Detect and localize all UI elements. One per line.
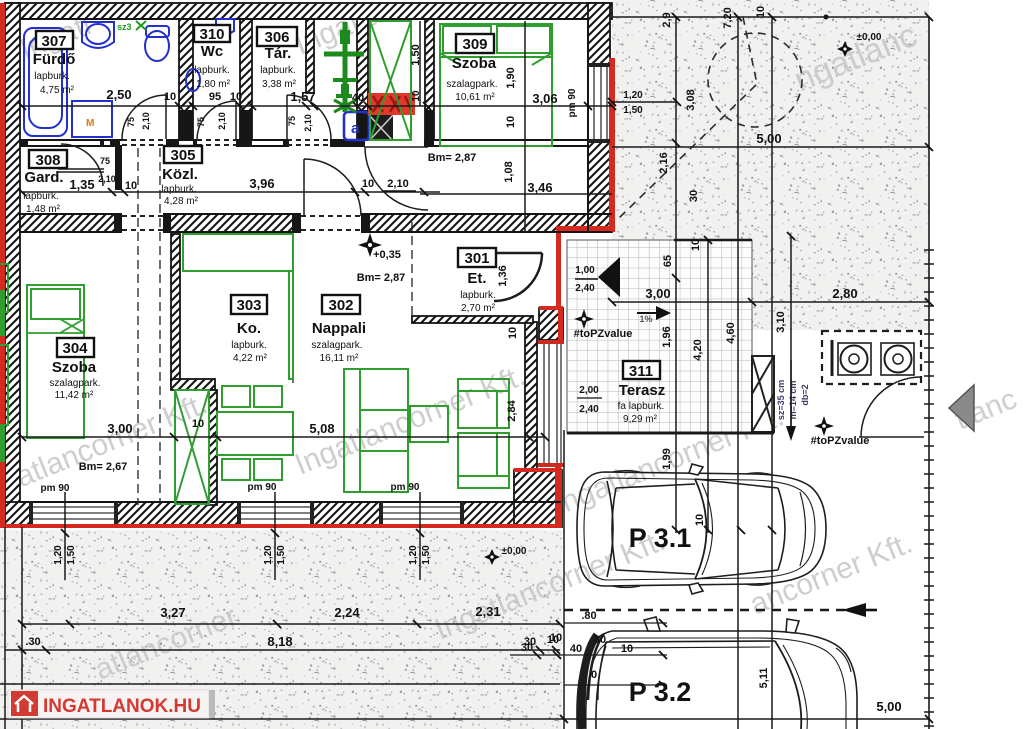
corridor bottom wall — [20, 214, 612, 232]
svg-text:30: 30 — [688, 190, 700, 202]
svg-text:Közl.: Közl. — [162, 166, 198, 183]
tar door — [287, 95, 331, 139]
svg-text:2,50: 2,50 — [106, 87, 131, 102]
svg-text:3,00: 3,00 — [107, 421, 132, 436]
svg-text:lapburk.: lapburk. — [34, 71, 70, 82]
left wheel dark — [582, 635, 598, 729]
dark lower parts of top interior walls — [179, 110, 193, 140]
entrance arrow — [575, 257, 620, 297]
svg-text:Nappali: Nappali — [312, 320, 366, 337]
svg-text:szalagpark.: szalagpark. — [446, 79, 497, 90]
svg-text:sz=35 cm: sz=35 cm — [776, 380, 786, 420]
kitchen counter — [183, 234, 293, 271]
svg-text:10: 10 — [694, 514, 706, 526]
bathtub — [24, 28, 67, 136]
red path near stairs — [556, 226, 612, 231]
small wall below kitchen — [171, 379, 215, 390]
front wheel bump — [836, 648, 851, 672]
door corridor to nappali — [304, 159, 361, 216]
K3 red box — [368, 93, 415, 115]
gray direction triangle right — [949, 385, 974, 431]
svg-text:sz3: sz3 — [117, 22, 132, 32]
svg-text:305: 305 — [170, 147, 195, 164]
bottom wall window 1 — [32, 503, 115, 524]
shaft box — [539, 308, 563, 340]
svg-text:10: 10 — [192, 418, 204, 430]
svg-text:3,06: 3,06 — [532, 91, 557, 106]
green window X — [370, 21, 411, 140]
armchair 1 — [458, 379, 509, 428]
armchair 2 — [458, 433, 509, 488]
room 308 — [23, 150, 67, 215]
solid black wall chunks along bathroom wall — [20, 110, 434, 232]
svg-text:1,50: 1,50 — [276, 545, 287, 565]
roof — [612, 484, 695, 574]
svg-text:1,96: 1,96 — [661, 326, 673, 347]
ground stipple bottom strip — [0, 530, 562, 729]
svg-text:10: 10 — [690, 239, 702, 251]
logo — [8, 690, 215, 718]
coffee table — [410, 406, 448, 442]
wc toilet — [186, 69, 200, 91]
svg-text:10: 10 — [621, 643, 633, 655]
bottom wall window 3 — [382, 503, 462, 524]
svg-text:4,60: 4,60 — [725, 322, 737, 343]
svg-text:1,99: 1,99 — [661, 448, 673, 469]
svg-text:2,84: 2,84 — [506, 399, 518, 421]
red accents — [0, 3, 615, 528]
svg-text:75: 75 — [287, 116, 297, 126]
svg-text:310: 310 — [199, 26, 224, 43]
right wall window — [589, 67, 609, 139]
washing machine — [72, 101, 112, 137]
svg-text:3,96: 3,96 — [249, 176, 274, 191]
svg-text:Szoba: Szoba — [452, 55, 497, 72]
svg-text:1,50: 1,50 — [410, 44, 422, 65]
svg-text:Bm= 2,87: Bm= 2,87 — [428, 152, 477, 164]
svg-text:1,20: 1,20 — [623, 90, 643, 101]
svg-text:10,61 m²: 10,61 m² — [455, 92, 495, 103]
room 306 — [257, 27, 297, 90]
top wall — [5, 3, 612, 19]
svg-text:2,24: 2,24 — [334, 605, 360, 620]
jambs at gard door — [100, 140, 104, 146]
svg-text:P 3.1: P 3.1 — [629, 523, 692, 553]
kitchen left wall — [171, 234, 180, 384]
svg-text:309: 309 — [462, 36, 487, 53]
svg-text:±0,00: ±0,00 — [857, 32, 882, 43]
svg-text:16,11 m²: 16,11 m² — [320, 353, 359, 364]
svg-text:pm 90: pm 90 — [248, 482, 277, 493]
svg-text:75: 75 — [126, 117, 136, 127]
svg-text:1,50: 1,50 — [421, 545, 432, 565]
svg-text:2,16: 2,16 — [658, 152, 670, 173]
svg-text:1,20: 1,20 — [263, 545, 274, 565]
svg-text:2,10: 2,10 — [98, 174, 116, 184]
svg-text:10: 10 — [230, 91, 242, 103]
wall between Furdo and Wc — [179, 19, 193, 140]
mirrors — [689, 464, 703, 594]
left wall — [5, 3, 20, 527]
svg-text:1,50: 1,50 — [66, 545, 77, 565]
bed 304 — [27, 285, 84, 438]
gard right jamb wall — [115, 145, 122, 190]
down arrow stairs — [786, 426, 796, 441]
stairs texts — [776, 380, 810, 420]
dark shaft box — [369, 115, 393, 141]
svg-text:10: 10 — [125, 180, 137, 192]
plusminus top right — [837, 32, 882, 57]
svg-text:304: 304 — [62, 340, 88, 357]
svg-text:2,9: 2,9 — [661, 12, 673, 27]
room 310 — [194, 25, 231, 90]
sink — [82, 22, 114, 48]
svg-text:1,90: 1,90 — [505, 67, 517, 88]
plant symbol — [343, 22, 348, 112]
svg-text:4,22 m²: 4,22 m² — [233, 353, 268, 364]
a pillars — [695, 479, 778, 579]
svg-text:3,46: 3,46 — [527, 180, 552, 195]
room 304 — [49, 338, 100, 401]
terrace stairs right — [752, 356, 774, 432]
wall between window zone and room 309 — [425, 19, 434, 140]
svg-text:2,40: 2,40 — [575, 283, 595, 294]
svg-text:2,10: 2,10 — [387, 178, 408, 190]
svg-text:40: 40 — [352, 92, 364, 104]
door corridor to 309 hall — [365, 147, 428, 210]
svg-text:9,29 m²: 9,29 m² — [623, 414, 658, 425]
svg-text:7,20: 7,20 — [722, 7, 734, 28]
svg-text:301: 301 — [464, 250, 489, 267]
bottom wall window 2 — [240, 503, 312, 524]
svg-text:pm 90: pm 90 — [391, 482, 420, 493]
svg-text:Szoba: Szoba — [52, 359, 97, 376]
svg-text:lapburk.: lapburk. — [161, 184, 197, 195]
svg-text:±0,00: ±0,00 — [502, 546, 527, 557]
car P3.1 — [577, 464, 826, 594]
svg-text:75: 75 — [100, 156, 110, 166]
wc door — [197, 101, 236, 140]
svg-text:1,50: 1,50 — [623, 105, 643, 116]
wc sink — [216, 19, 234, 34]
rear — [596, 642, 606, 729]
svg-text:3,27: 3,27 — [160, 605, 185, 620]
room 302 — [311, 295, 366, 364]
svg-text:10: 10 — [362, 178, 374, 190]
svg-text:10: 10 — [507, 327, 519, 339]
svg-text:INGATLANOK.HU: INGATLANOK.HU — [43, 696, 201, 717]
dashed door openings in corridor wall — [122, 140, 697, 240]
svg-text:2,10: 2,10 — [141, 112, 151, 130]
room 305 — [161, 146, 202, 207]
red bottom edge — [0, 524, 562, 528]
room 307 — [33, 31, 76, 96]
nappali right wall — [525, 322, 537, 502]
svg-text:1,80 m²: 1,80 m² — [196, 79, 231, 90]
et bottom wall strip — [412, 316, 533, 323]
svg-text:fa lapburk.: fa lapburk. — [618, 401, 665, 412]
gard door — [61, 144, 103, 186]
svg-text:8,18: 8,18 — [267, 634, 292, 649]
rotated dimension texts — [53, 6, 787, 689]
furdo door — [122, 95, 166, 139]
windshield — [775, 641, 801, 729]
svg-text:30: 30 — [594, 634, 606, 646]
wall left of green window — [357, 19, 368, 140]
svg-text:M: M — [86, 118, 94, 129]
plusminus bottom — [484, 546, 527, 565]
svg-text:Wc: Wc — [201, 43, 224, 60]
svg-text:2,10: 2,10 — [303, 114, 313, 132]
1% slope arrow — [637, 306, 671, 324]
bottom wall — [5, 502, 561, 527]
svg-text:1%: 1% — [639, 314, 652, 324]
svg-text:Tár.: Tár. — [265, 45, 292, 62]
svg-text:2,80: 2,80 — [832, 286, 857, 301]
svg-text:lapburk.: lapburk. — [231, 340, 267, 351]
svg-text:m=14 cm: m=14 cm — [788, 381, 798, 420]
a badge — [344, 112, 369, 140]
svg-text:lapburk.: lapburk. — [194, 65, 230, 76]
right wall — [588, 3, 610, 232]
bed 309 — [440, 24, 552, 146]
green neighbor marks on left edge — [0, 290, 5, 336]
red borders sw corner block — [514, 468, 562, 472]
room 311 — [618, 361, 666, 425]
svg-text:75: 75 — [196, 117, 206, 127]
ground stipple top-right — [612, 0, 929, 330]
car P3.2 — [577, 617, 857, 729]
red left edge — [0, 3, 5, 527]
et door — [494, 253, 542, 301]
svg-text:4,75 m²: 4,75 m² — [40, 85, 75, 96]
svg-text:3,10: 3,10 — [775, 311, 787, 332]
corridor wall door jambs — [292, 214, 301, 232]
svg-text:1,20: 1,20 — [53, 545, 64, 565]
svg-text:#toPZvalue: #toPZvalue — [574, 328, 633, 340]
room 303 — [231, 295, 268, 364]
svg-text:65: 65 — [662, 255, 674, 267]
svg-text:.80: .80 — [581, 610, 596, 622]
dimension texts — [25, 87, 901, 714]
svg-text:10: 10 — [164, 91, 176, 103]
svg-text:Terasz: Terasz — [619, 382, 665, 399]
svg-text:szalagpark.: szalagpark. — [49, 378, 100, 389]
svg-text:1,48 m²: 1,48 m² — [26, 204, 61, 215]
svg-text:2,00: 2,00 — [579, 385, 599, 396]
room 301 — [458, 248, 496, 314]
fence ticks — [924, 250, 934, 726]
svg-text:Et.: Et. — [467, 270, 486, 287]
304 left fragments — [0, 264, 8, 312]
red right wall outer — [609, 58, 615, 232]
dashed driving line — [510, 603, 877, 685]
svg-text:11,42 m²: 11,42 m² — [55, 390, 94, 401]
svg-text:3,00: 3,00 — [645, 286, 670, 301]
door opening gap in corridor bottom wall — [301, 213, 361, 233]
svg-text:+0,35: +0,35 — [373, 249, 401, 261]
svg-text:Gard.: Gard. — [24, 169, 63, 186]
wardrobe X — [175, 390, 209, 504]
terrace french door — [538, 343, 564, 465]
svg-text:307: 307 — [41, 33, 66, 50]
sw corner block — [514, 470, 562, 527]
svg-text:302: 302 — [328, 297, 353, 314]
room 309 — [446, 34, 497, 103]
svg-text:40: 40 — [570, 643, 582, 655]
svg-text:95: 95 — [209, 91, 221, 103]
svg-text:Fürdő: Fürdő — [33, 51, 76, 68]
svg-text:5,00: 5,00 — [876, 699, 901, 714]
svg-text:5,08: 5,08 — [309, 421, 334, 436]
svg-text:4,20: 4,20 — [692, 339, 704, 360]
svg-text:10: 10 — [547, 634, 559, 646]
svg-text:303: 303 — [236, 297, 261, 314]
svg-text:a: a — [351, 120, 360, 137]
wardrobe right wall — [209, 390, 217, 505]
section dashed lines — [138, 148, 412, 505]
svg-text:306: 306 — [264, 29, 289, 46]
svg-text:1,36: 1,36 — [497, 265, 509, 286]
svg-text:308: 308 — [35, 152, 60, 169]
svg-text:4,28 m²: 4,28 m² — [164, 196, 199, 207]
svg-text:311: 311 — [629, 363, 653, 380]
svg-text:30: 30 — [521, 642, 533, 654]
svg-text:.30: .30 — [25, 636, 40, 648]
rear window — [607, 481, 613, 577]
svg-text:2,31: 2,31 — [475, 604, 500, 619]
svg-text:10: 10 — [755, 6, 767, 18]
svg-text:1,08: 1,08 — [503, 161, 515, 182]
svg-text:5,00: 5,00 — [756, 131, 781, 146]
svg-text:szalagpark.: szalagpark. — [311, 340, 362, 351]
svg-text:1,35: 1,35 — [69, 177, 94, 192]
svg-text:0: 0 — [591, 669, 597, 681]
garden gate door — [859, 377, 924, 437]
north star nappali — [358, 233, 382, 257]
svg-text:#toPZvalue: #toPZvalue — [811, 435, 870, 447]
toilet — [145, 31, 169, 61]
svg-text:lapburk.: lapburk. — [460, 290, 496, 301]
svg-text:2,70 m²: 2,70 m² — [461, 303, 496, 314]
svg-text:3,08: 3,08 — [685, 89, 697, 110]
svg-text:Ko.: Ko. — [237, 320, 261, 337]
svg-text:10: 10 — [505, 116, 517, 128]
room inner outline — [20, 19, 612, 502]
svg-text:1,57: 1,57 — [290, 89, 315, 104]
svg-text:2,10: 2,10 — [217, 112, 227, 130]
svg-text:2,40: 2,40 — [579, 404, 599, 415]
wall between Wc and Tar — [240, 19, 252, 140]
toPZ star 2 — [811, 416, 870, 447]
terrace tile floor — [567, 240, 752, 433]
svg-text:Bm= 2,87: Bm= 2,87 — [357, 272, 406, 284]
svg-text:pm 90: pm 90 — [567, 88, 578, 117]
mirrors — [644, 617, 660, 631]
svg-text:10: 10 — [411, 90, 422, 102]
wall between Tar and shaft — [306, 19, 314, 93]
toPZ star 1 — [574, 309, 633, 340]
svg-text:Bm= 2,67: Bm= 2,67 — [79, 461, 128, 473]
svg-text:db=2: db=2 — [800, 384, 810, 405]
svg-text:lapburk.: lapburk. — [260, 65, 296, 76]
svg-text:5,11: 5,11 — [758, 668, 770, 689]
terrace labels 2.00/2.40 — [577, 385, 602, 415]
wheels bumps — [612, 471, 773, 588]
nappali sofa — [344, 369, 408, 492]
front windshield front edge — [778, 488, 785, 570]
windshield — [695, 479, 707, 579]
svg-text:1,20: 1,20 — [408, 545, 419, 565]
dining table — [217, 412, 293, 455]
svg-text:1,00: 1,00 — [575, 265, 595, 276]
